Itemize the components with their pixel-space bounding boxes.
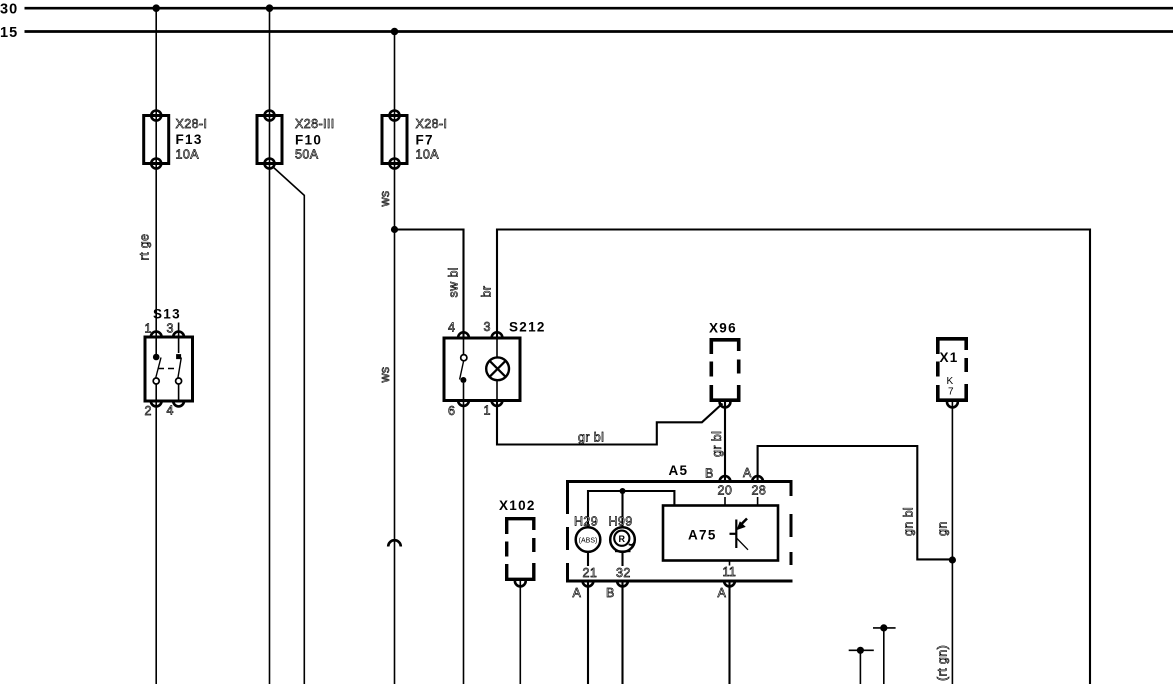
lamp link wire inside A5 (588, 491, 674, 527)
svg-text:gr bl: gr bl (578, 431, 604, 445)
junction node ws branch (391, 226, 398, 233)
switch S212 with lamp (444, 332, 520, 406)
svg-text:ws: ws (378, 190, 392, 207)
wire pin 11 down (728, 581, 730, 684)
svg-text:K: K (947, 376, 954, 387)
fuse F13 (144, 111, 169, 169)
junction node bus15/F7 (391, 28, 399, 36)
svg-text:rt ge: rt ge (138, 233, 152, 260)
svg-text:gn: gn (936, 521, 950, 536)
svg-text:(ABS): (ABS) (579, 538, 598, 545)
svg-text:11: 11 (723, 565, 737, 579)
svg-text:R: R (619, 534, 626, 544)
fuse F13 labels (176, 117, 208, 162)
svg-text:br: br (480, 286, 494, 298)
junction node lamp link (620, 488, 626, 494)
svg-text:S212: S212 (509, 320, 546, 335)
wire F10 column (269, 8, 271, 684)
stub wire with junction right (873, 624, 896, 684)
svg-text:3: 3 (484, 320, 491, 334)
svg-text:50A: 50A (295, 148, 319, 162)
svg-text:20: 20 (718, 484, 733, 498)
svg-text:21: 21 (583, 566, 598, 580)
svg-text:S13: S13 (153, 307, 181, 322)
fuse F7 labels (416, 117, 448, 162)
svg-text:10A: 10A (416, 148, 440, 162)
svg-text:A: A (573, 586, 582, 600)
wire ws branch to S212 pin4 (395, 230, 464, 338)
wire gn bl: A5 pin 28 to gn junction (758, 446, 953, 559)
svg-text:7: 7 (948, 387, 954, 398)
wire br net: S212 pin3 up, right, down right side (497, 230, 1090, 684)
svg-text:2: 2 (145, 404, 152, 418)
wire gr bl: S212 pin1 to X96 (497, 401, 723, 445)
lamp H99 (610, 527, 635, 552)
wire H29 to pin 21 (587, 552, 589, 566)
A5 pin 11 bump A (718, 565, 737, 600)
svg-text:X28-III: X28-III (295, 117, 335, 131)
connector X102 (507, 519, 534, 587)
svg-text:B: B (705, 467, 714, 481)
S13 pin labels (145, 322, 174, 419)
ECU box A75 (663, 506, 778, 561)
wire pin 21 down (587, 581, 589, 684)
wire H99 to pin 32 (621, 552, 623, 566)
wire break symbol on ws wire (388, 540, 401, 546)
wire gn: X1 down (951, 402, 953, 684)
A75 sensor symbol (730, 519, 749, 550)
svg-text:gn bl: gn bl (902, 507, 916, 536)
wire pin 28 stub into A75 (757, 497, 759, 506)
svg-text:X1: X1 (940, 350, 959, 365)
junction node bus30/F13 (152, 4, 160, 12)
stub wire with junction left (849, 647, 874, 684)
svg-text:A: A (718, 586, 727, 600)
svg-text:ws: ws (378, 366, 392, 383)
svg-text:gr bl: gr bl (710, 431, 724, 457)
X1 K7 label (947, 376, 955, 398)
svg-text:X28-I: X28-I (416, 117, 448, 131)
svg-text:4: 4 (167, 404, 174, 418)
wire F10 branch diagonal (273, 167, 305, 684)
svg-text:(rt gn): (rt gn) (936, 645, 950, 681)
svg-text:F7: F7 (416, 133, 434, 148)
connector X96 (711, 340, 738, 408)
svg-text:X28-I: X28-I (176, 117, 208, 131)
connector X1 (938, 339, 966, 408)
svg-text:1: 1 (484, 404, 491, 418)
svg-text:6: 6 (448, 404, 455, 418)
bus 15 line (25, 30, 1173, 33)
A5 pin 28 bump A (743, 466, 766, 498)
wire pin 20 stub into A75 (724, 497, 726, 506)
lamp H29 (576, 527, 601, 552)
relay box A5 (566, 480, 793, 583)
svg-text:10A: 10A (176, 148, 200, 162)
switch S13 (145, 323, 193, 407)
fuse F7 (382, 111, 407, 169)
svg-text:4: 4 (448, 321, 455, 335)
junction node bus30/F10 (266, 4, 274, 12)
A5 pin 32 bump B (606, 566, 631, 600)
fuse F10 labels (295, 117, 335, 162)
junction node gn (949, 556, 956, 563)
svg-text:X102: X102 (499, 498, 536, 513)
svg-text:A75: A75 (688, 528, 717, 543)
svg-text:30: 30 (0, 2, 18, 18)
svg-text:A5: A5 (669, 463, 689, 478)
wire S212 pin6 down (463, 401, 465, 684)
svg-text:A: A (743, 466, 752, 480)
fuse F10 (257, 111, 282, 169)
S212 pin labels (448, 320, 491, 418)
wire F13 column (155, 8, 157, 684)
svg-text:32: 32 (616, 566, 631, 580)
svg-text:28: 28 (752, 484, 767, 498)
bus 30 line (25, 7, 1173, 10)
A5 pin 21 bump A (573, 566, 598, 600)
wire pin 32 down (621, 581, 623, 684)
A5 pin 20 bump B (705, 467, 732, 498)
svg-text:sw bl: sw bl (447, 267, 461, 297)
wire A75 to pin 11 (729, 561, 731, 566)
wire F7 column ws (394, 32, 396, 684)
svg-text:X96: X96 (709, 321, 737, 336)
svg-text:B: B (606, 586, 615, 600)
svg-text:3: 3 (167, 322, 174, 336)
wire X96 to A5 pin 20 (724, 402, 726, 481)
wire X102 down (519, 581, 521, 684)
svg-text:F10: F10 (295, 133, 322, 148)
svg-text:F13: F13 (176, 132, 203, 147)
svg-text:15: 15 (0, 25, 18, 41)
svg-text:1: 1 (145, 322, 152, 336)
